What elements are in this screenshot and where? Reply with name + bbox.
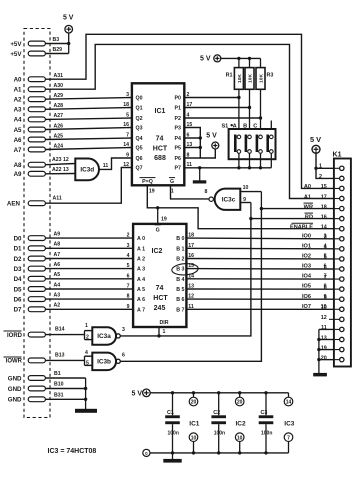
svg-text:A8: A8 [54, 242, 61, 248]
svg-text:11: 11 [321, 325, 327, 331]
svg-text:P0: P0 [175, 96, 182, 102]
svg-text:5 V: 5 V [131, 391, 142, 398]
svg-text:A 3: A 3 [137, 267, 145, 273]
svg-text:B3: B3 [53, 37, 60, 43]
svg-text:15: 15 [321, 184, 327, 190]
svg-text:A 2: A 2 [137, 257, 145, 263]
svg-text:P6: P6 [175, 156, 182, 162]
svg-text:A3: A3 [14, 107, 22, 114]
svg-text:100n: 100n [214, 431, 225, 437]
svg-text:14: 14 [286, 400, 292, 406]
svg-text:A0: A0 [14, 77, 22, 84]
svg-text:100n: 100n [168, 431, 179, 437]
svg-text:A 0: A 0 [137, 236, 145, 242]
svg-text:3: 3 [324, 233, 327, 239]
svg-text:HCT: HCT [153, 145, 168, 152]
svg-text:7: 7 [287, 435, 290, 441]
svg-text:19: 19 [321, 345, 327, 351]
svg-text:IOWR: IOWR [6, 359, 23, 365]
svg-text:5: 5 [86, 360, 89, 366]
svg-text:16: 16 [321, 214, 327, 220]
svg-text:IO1: IO1 [302, 243, 311, 249]
svg-text:S1: S1 [221, 123, 228, 129]
svg-text:IO7: IO7 [302, 304, 311, 310]
svg-text:ENABLE: ENABLE [290, 225, 313, 231]
svg-text:P7: P7 [175, 166, 182, 172]
svg-text:B 7: B 7 [176, 307, 184, 313]
svg-text:Q3: Q3 [136, 126, 143, 132]
svg-text:5 V: 5 V [200, 56, 211, 63]
svg-text:A9: A9 [14, 171, 22, 178]
svg-text:D1: D1 [14, 246, 22, 253]
svg-text:IC3 = 74HCT08: IC3 = 74HCT08 [48, 448, 97, 455]
svg-text:A30: A30 [54, 83, 64, 89]
svg-text:B14: B14 [55, 327, 65, 333]
svg-text:16: 16 [123, 122, 129, 128]
svg-text:R1: R1 [226, 73, 233, 79]
svg-text:A4: A4 [14, 117, 22, 124]
svg-text:A 7: A 7 [137, 307, 145, 313]
svg-text:4: 4 [324, 243, 327, 249]
svg-text:IO5: IO5 [302, 284, 311, 290]
svg-text:A31: A31 [54, 73, 64, 79]
svg-text:A25: A25 [54, 133, 64, 139]
svg-text:3: 3 [122, 327, 125, 333]
svg-text:A4: A4 [54, 282, 61, 288]
svg-text:A 5: A 5 [137, 287, 145, 293]
svg-text:D0: D0 [14, 235, 22, 242]
svg-text:4: 4 [127, 253, 130, 259]
svg-text:IC3b: IC3b [97, 359, 111, 366]
svg-text:8: 8 [324, 284, 327, 290]
svg-text:1: 1 [171, 189, 174, 195]
svg-text:IO0: IO0 [302, 233, 311, 239]
svg-text:688: 688 [154, 155, 166, 162]
svg-text:P3: P3 [175, 126, 182, 132]
svg-text:A11: A11 [53, 196, 62, 202]
svg-text:Q0: Q0 [136, 96, 143, 102]
svg-text:C2: C2 [213, 410, 220, 416]
svg-text:12: 12 [321, 315, 327, 321]
svg-text:74: 74 [156, 136, 164, 143]
svg-text:IC2: IC2 [152, 248, 163, 255]
svg-text:C: C [253, 123, 257, 129]
svg-text:D4: D4 [14, 276, 22, 283]
svg-text:GND: GND [8, 375, 22, 382]
svg-text:20: 20 [237, 400, 243, 406]
svg-text:B: B [243, 123, 247, 129]
svg-text:IO4: IO4 [302, 274, 312, 280]
svg-text:10: 10 [243, 185, 249, 191]
svg-text:IC3d: IC3d [80, 167, 94, 174]
svg-text:C3: C3 [261, 410, 268, 416]
svg-text:10: 10 [237, 435, 243, 441]
svg-text:C1: C1 [167, 410, 174, 416]
svg-text:IC1: IC1 [189, 420, 200, 427]
svg-text:GND: GND [8, 397, 22, 404]
svg-text:13: 13 [321, 335, 327, 341]
svg-text:A 6: A 6 [137, 297, 145, 303]
svg-text:IO6: IO6 [302, 294, 311, 300]
svg-text:4: 4 [85, 350, 88, 356]
svg-text:10K: 10K [258, 74, 264, 83]
svg-text:8: 8 [127, 294, 130, 300]
svg-text:9: 9 [126, 152, 129, 158]
svg-text:7: 7 [324, 274, 327, 280]
svg-text:6: 6 [122, 352, 125, 358]
svg-text:P5: P5 [175, 146, 182, 152]
svg-text:1: 1 [85, 323, 88, 329]
svg-text:18: 18 [123, 102, 129, 108]
svg-text:B 3: B 3 [176, 267, 184, 273]
svg-text:9: 9 [127, 304, 130, 310]
svg-text:B29: B29 [53, 47, 63, 53]
svg-text:A5: A5 [54, 272, 61, 278]
svg-text:Q6: Q6 [136, 156, 143, 162]
svg-text:A 4: A 4 [137, 277, 145, 283]
svg-text:7: 7 [127, 284, 130, 290]
svg-text:Q4: Q4 [136, 136, 143, 142]
svg-text:A28: A28 [54, 103, 64, 109]
svg-text:B10: B10 [54, 382, 64, 388]
svg-text:7: 7 [126, 133, 129, 139]
svg-text:Q1: Q1 [136, 106, 143, 112]
svg-text:74: 74 [156, 285, 164, 292]
svg-text:IC3a: IC3a [97, 333, 111, 340]
svg-text:5 V: 5 V [310, 135, 321, 144]
svg-text:A22 13: A22 13 [52, 167, 69, 173]
svg-text:A1: A1 [304, 194, 311, 200]
svg-text:G: G [170, 179, 174, 185]
svg-text:5: 5 [127, 263, 130, 269]
svg-text:14: 14 [321, 225, 327, 231]
svg-text:B 2: B 2 [176, 257, 184, 263]
svg-text:20: 20 [191, 400, 197, 406]
svg-text:B 6: B 6 [176, 297, 184, 303]
svg-text:5: 5 [324, 254, 327, 260]
svg-text:GND: GND [8, 386, 22, 393]
svg-text:9: 9 [243, 197, 246, 203]
svg-text:8: 8 [205, 189, 208, 195]
svg-text:17: 17 [321, 194, 327, 200]
svg-text:6: 6 [127, 273, 130, 279]
svg-text:20: 20 [321, 355, 327, 361]
svg-text:RD: RD [305, 214, 313, 220]
svg-text:A24: A24 [54, 143, 64, 149]
svg-text:P4: P4 [175, 136, 182, 142]
svg-text:A2: A2 [54, 303, 61, 309]
svg-text:245: 245 [154, 305, 166, 312]
svg-text:B13: B13 [55, 352, 65, 358]
svg-text:2: 2 [86, 335, 89, 341]
svg-text:5: 5 [126, 113, 129, 119]
svg-text:AEN: AEN [7, 201, 21, 208]
svg-text:D5: D5 [14, 286, 22, 293]
svg-text:B31: B31 [54, 392, 64, 398]
svg-text:100n: 100n [261, 431, 272, 437]
svg-text:6: 6 [324, 264, 327, 270]
svg-text:10: 10 [321, 304, 327, 310]
svg-text:9: 9 [324, 294, 327, 300]
svg-text:IC3c: IC3c [222, 197, 236, 204]
svg-text:Q5: Q5 [136, 146, 143, 152]
svg-text:R3: R3 [267, 73, 274, 79]
svg-text:HCT: HCT [153, 295, 168, 302]
svg-text:+5V: +5V [10, 41, 22, 48]
svg-text:19: 19 [149, 189, 155, 195]
svg-text:3: 3 [127, 243, 130, 249]
svg-text:A3: A3 [54, 293, 61, 299]
svg-text:A7: A7 [54, 252, 61, 258]
svg-text:DIR: DIR [159, 320, 168, 326]
svg-text:IC3: IC3 [284, 420, 295, 427]
svg-text:5 V: 5 V [206, 133, 217, 140]
svg-text:+5V: +5V [10, 51, 22, 58]
svg-text:WR: WR [304, 204, 313, 210]
svg-text:A29: A29 [54, 93, 64, 99]
svg-text:IC1: IC1 [155, 108, 166, 115]
svg-text:Q7: Q7 [136, 166, 143, 172]
svg-text:G: G [156, 227, 160, 233]
svg-text:A0: A0 [304, 184, 311, 190]
svg-text:B 0: B 0 [176, 236, 184, 242]
svg-text:P=Q: P=Q [142, 179, 153, 185]
svg-text:K1: K1 [333, 152, 342, 159]
svg-text:B 1: B 1 [176, 246, 184, 252]
svg-text:A7: A7 [14, 147, 22, 154]
svg-text:A26: A26 [54, 123, 64, 129]
svg-text:IO2: IO2 [302, 254, 311, 260]
svg-text:A6: A6 [14, 137, 22, 144]
svg-text:P1: P1 [175, 106, 182, 112]
svg-text:B1: B1 [54, 371, 61, 377]
svg-text:10K: 10K [237, 74, 243, 83]
svg-text:D7: D7 [14, 307, 22, 314]
svg-text:IO3: IO3 [302, 264, 311, 270]
svg-text:A8: A8 [14, 162, 22, 169]
svg-text:A: A [233, 123, 237, 129]
svg-text:Q2: Q2 [136, 116, 143, 122]
svg-text:IORD: IORD [7, 333, 23, 339]
svg-text:1: 1 [163, 329, 166, 335]
svg-text:A6: A6 [54, 262, 61, 268]
svg-text:D6: D6 [14, 296, 22, 303]
svg-text:10: 10 [191, 435, 197, 441]
svg-text:11: 11 [103, 163, 109, 169]
svg-text:B 5: B 5 [176, 287, 184, 293]
svg-text:P2: P2 [175, 116, 182, 122]
svg-text:19: 19 [161, 217, 167, 223]
svg-text:3: 3 [126, 92, 129, 98]
svg-text:A27: A27 [54, 113, 64, 119]
svg-text:IC2: IC2 [236, 420, 247, 427]
svg-text:A5: A5 [14, 127, 22, 134]
svg-text:D2: D2 [14, 256, 22, 263]
svg-text:10K: 10K [247, 74, 253, 83]
svg-text:D3: D3 [14, 266, 22, 273]
svg-text:A9: A9 [54, 232, 61, 238]
svg-text:A23 12: A23 12 [52, 157, 69, 163]
svg-text:A2: A2 [14, 97, 22, 104]
svg-text:5 V: 5 V [63, 15, 74, 22]
svg-text:2: 2 [127, 233, 130, 239]
svg-text:A1: A1 [14, 87, 22, 94]
svg-text:B 4: B 4 [176, 277, 184, 283]
svg-text:14: 14 [123, 142, 129, 148]
svg-text:A 1: A 1 [137, 246, 145, 252]
svg-text:18: 18 [321, 204, 327, 210]
